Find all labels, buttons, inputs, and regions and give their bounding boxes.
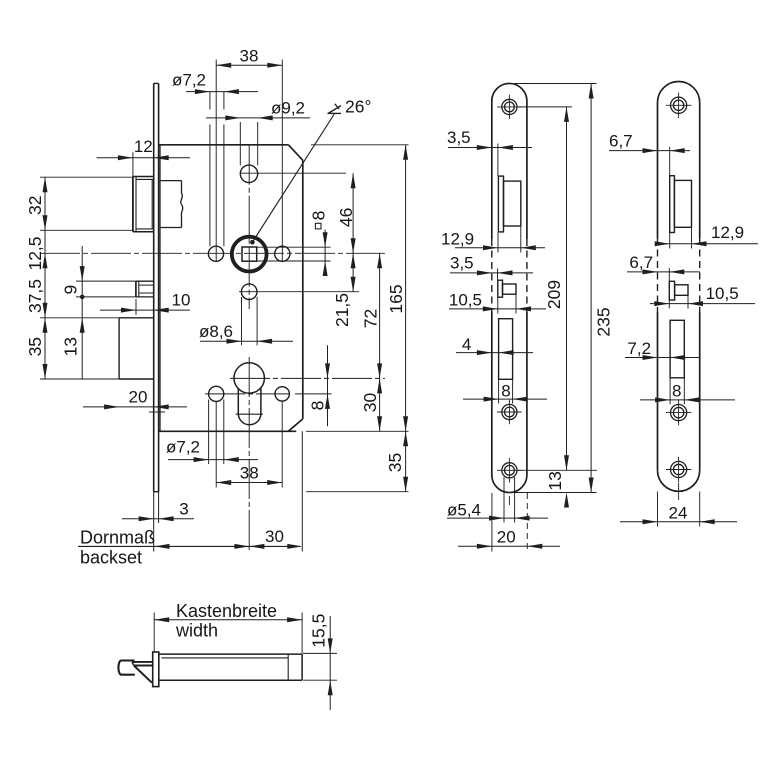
svg-text:12,9: 12,9 bbox=[711, 223, 744, 242]
dim 21,5 bbox=[352, 253, 354, 291]
right plate centre line segment below bbox=[678, 483, 680, 500]
right plate slot 8mm bbox=[670, 320, 684, 378]
dim Kastenbreite width bbox=[154, 619, 302, 621]
svg-text:6,7: 6,7 bbox=[629, 253, 653, 272]
svg-text:ø8,6: ø8,6 bbox=[199, 322, 233, 341]
svg-text:12: 12 bbox=[134, 137, 153, 156]
svg-text:7,2: 7,2 bbox=[627, 339, 651, 358]
dim 20 plate bbox=[458, 545, 560, 547]
dim ø8,6 bbox=[200, 340, 293, 342]
cylinder horizontal centre line bbox=[230, 377, 385, 379]
auxiliary latch bbox=[135, 281, 137, 297]
dim 30 right bbox=[379, 378, 381, 431]
edge ext lines upper ø7.2 bbox=[209, 92, 211, 110]
top ext line right (165) bbox=[311, 144, 409, 146]
dim 46 bbox=[352, 173, 354, 253]
edge ext lines ø9.2 bbox=[239, 122, 241, 165]
svg-text:8: 8 bbox=[308, 401, 328, 411]
dim 10 bbox=[100, 309, 190, 311]
dim 3 faceplate thickness bbox=[122, 518, 194, 520]
svg-text:13: 13 bbox=[545, 471, 565, 490]
svg-text:ø7,2: ø7,2 bbox=[172, 71, 206, 90]
vertical centre line lower bbox=[248, 357, 250, 552]
right plate middle screw hole bbox=[671, 405, 687, 421]
svg-text:width: width bbox=[175, 621, 218, 641]
dim ø7,2 top bbox=[186, 91, 258, 93]
svg-text:15,5: 15,5 bbox=[309, 614, 329, 648]
faceplate bottom ext right bbox=[306, 491, 409, 493]
svg-text:3,5: 3,5 bbox=[447, 128, 471, 147]
svg-text:Dornmaß: Dornmaß bbox=[80, 528, 155, 548]
faceplate extension lines below bbox=[153, 492, 155, 552]
dim 12,9 middle plate bbox=[455, 247, 545, 249]
dim 20 box bbox=[83, 406, 187, 408]
screw hole upper-left ø7.2 bbox=[208, 246, 223, 261]
dim ø5,4 bbox=[447, 517, 548, 519]
screw hole lower-left ø7.2 bbox=[209, 386, 224, 401]
euro profile cylinder hole bbox=[234, 363, 264, 393]
dim 37,5 arrows bbox=[43, 253, 48, 268]
svg-text:4: 4 bbox=[462, 335, 471, 354]
svg-text:32: 32 bbox=[25, 196, 45, 215]
dim 3,5 second bbox=[450, 272, 533, 274]
svg-text:165: 165 bbox=[386, 284, 406, 313]
dim 12 latch projection bbox=[97, 157, 191, 159]
latch tip top view bbox=[118, 661, 134, 675]
middle plate latch cutout bbox=[498, 176, 503, 232]
faceplate (Stulp) front view bbox=[153, 83, 155, 491]
dim backset and 30 bbox=[78, 545, 300, 547]
dim 6,7 top bbox=[609, 150, 690, 152]
square ext lines bbox=[257, 246, 331, 248]
case bottom ext right bbox=[306, 430, 409, 432]
right plate latch cutout bbox=[670, 176, 675, 233]
dim 32 arrows bbox=[43, 177, 48, 192]
middle plate deadbolt cutout bbox=[498, 280, 503, 297]
follower hole (bold circle) bbox=[232, 237, 267, 272]
svg-text:38: 38 bbox=[240, 464, 259, 483]
faceplate bar top view bbox=[153, 652, 159, 687]
lock case outline with chamfered corners bbox=[159, 144, 289, 146]
svg-text:30: 30 bbox=[360, 393, 380, 413]
svg-text:21,5: 21,5 bbox=[332, 293, 352, 327]
right plate top screw hole bbox=[671, 97, 687, 113]
angle symbol and 26 deg label bbox=[328, 112, 342, 114]
latch bolt tail with break line bbox=[160, 180, 181, 182]
svg-text:35: 35 bbox=[385, 453, 405, 472]
svg-text:13: 13 bbox=[61, 337, 81, 356]
right striking plate outline bbox=[658, 81, 700, 102]
svg-text:Kastenbreite: Kastenbreite bbox=[176, 601, 277, 621]
dim 10,5 middle plate bbox=[449, 308, 546, 310]
dim 235 bbox=[590, 84, 592, 493]
svg-text:38: 38 bbox=[240, 47, 259, 66]
svg-text:10,5: 10,5 bbox=[449, 290, 482, 309]
dim 3,5 top bbox=[448, 147, 532, 149]
svg-text:235: 235 bbox=[594, 307, 614, 336]
middle plate top screw hole bbox=[502, 99, 517, 114]
centre line right hole up bbox=[281, 60, 283, 262]
middle plate slot 8mm bbox=[499, 319, 513, 380]
dim 13 plate bbox=[564, 493, 569, 508]
right plate deadbolt cutout bbox=[669, 281, 674, 300]
dim 8 right plate bbox=[640, 399, 735, 401]
screw hole upper-right ø7.2 bbox=[275, 246, 290, 261]
svg-text:20: 20 bbox=[129, 388, 148, 407]
case corner extension line down bbox=[301, 431, 303, 551]
lower hole edge ext down bbox=[208, 400, 210, 465]
vertical centre line upper bbox=[248, 145, 250, 309]
lower box (20 wide) bbox=[118, 318, 120, 379]
svg-text:backset: backset bbox=[80, 548, 142, 568]
svg-text:ø9,2: ø9,2 bbox=[271, 99, 305, 118]
dim 38 top bbox=[216, 64, 282, 66]
follower horizontal centre line bbox=[40, 252, 385, 254]
dim 35 right bbox=[405, 431, 407, 491]
case top view bbox=[159, 653, 302, 655]
hole ø9.2 top bbox=[240, 165, 257, 182]
svg-text:35: 35 bbox=[25, 337, 45, 356]
svg-text:8: 8 bbox=[501, 382, 510, 401]
leader line 26 deg to follower bbox=[252, 114, 334, 242]
svg-text:3: 3 bbox=[179, 500, 188, 519]
svg-text:10,5: 10,5 bbox=[706, 284, 739, 303]
dim 15,5 bbox=[329, 616, 331, 710]
svg-text:6,7: 6,7 bbox=[609, 131, 633, 150]
dim 72 bbox=[379, 253, 381, 378]
svg-text:8: 8 bbox=[672, 381, 681, 400]
dim ø7,2 lower bbox=[168, 459, 258, 461]
dim 165 bbox=[405, 145, 407, 432]
dim 38 lower bbox=[216, 482, 282, 484]
ø8.6 tangent ext down bbox=[241, 297, 243, 345]
svg-text:12,5: 12,5 bbox=[25, 236, 45, 270]
latch bolt head bbox=[132, 177, 134, 232]
middle plate centre line segment below bbox=[508, 496, 510, 505]
ø8.6 centre ext right bbox=[239, 291, 359, 293]
dim 9 line with dot bbox=[81, 246, 83, 297]
centre line left hole up bbox=[215, 60, 217, 262]
svg-text:8: 8 bbox=[309, 211, 329, 221]
svg-text:10: 10 bbox=[172, 291, 191, 310]
middle plate bottom screw hole bbox=[502, 463, 517, 478]
svg-text:9: 9 bbox=[61, 285, 81, 295]
left dimension column line bbox=[44, 177, 46, 379]
svg-text:ø5,4: ø5,4 bbox=[447, 501, 481, 520]
middle striking plate outline bbox=[492, 83, 527, 101]
dim 209 bbox=[566, 107, 568, 470]
dim 8 middle plate bbox=[463, 398, 547, 400]
svg-text:46: 46 bbox=[336, 208, 356, 227]
hole ø8.6 bbox=[241, 284, 257, 300]
lower holes centre line bbox=[205, 393, 290, 395]
dim 4 bbox=[456, 352, 533, 354]
dim 6,7 second bbox=[627, 271, 700, 273]
dim 13 left bbox=[81, 297, 83, 379]
svg-text:26°: 26° bbox=[345, 97, 371, 117]
dim ø9,2 bbox=[206, 117, 310, 119]
dim 35 left arrows bbox=[43, 318, 48, 333]
svg-text:72: 72 bbox=[361, 309, 381, 328]
svg-text:24: 24 bbox=[669, 503, 688, 522]
screw hole lower-right ø7.2 bbox=[275, 387, 289, 401]
dim 10,5 right plate bbox=[650, 303, 755, 305]
middle plate middle screw hole bbox=[502, 404, 517, 419]
svg-text:209: 209 bbox=[544, 280, 564, 309]
right plate bottom screw hole bbox=[671, 461, 687, 477]
left column extension lines bbox=[40, 176, 133, 178]
svg-text:3,5: 3,5 bbox=[450, 253, 474, 272]
dim 8 lower right bbox=[327, 345, 329, 426]
svg-text:20: 20 bbox=[497, 527, 516, 546]
dim 12,9 right plate bbox=[660, 243, 758, 245]
dim square-8 bbox=[324, 230, 326, 269]
svg-text:37,5: 37,5 bbox=[25, 279, 45, 313]
lower hole centre ext down bbox=[215, 402, 217, 488]
svg-text:ø7,2: ø7,2 bbox=[166, 438, 200, 457]
svg-text:30: 30 bbox=[265, 527, 284, 546]
dim 24 bbox=[620, 521, 737, 523]
svg-text:12,9: 12,9 bbox=[441, 229, 474, 248]
follower square 8mm bbox=[242, 247, 257, 261]
dim 7,2 right plate bbox=[625, 357, 700, 359]
ø9.2 centre ext right bbox=[240, 172, 346, 174]
